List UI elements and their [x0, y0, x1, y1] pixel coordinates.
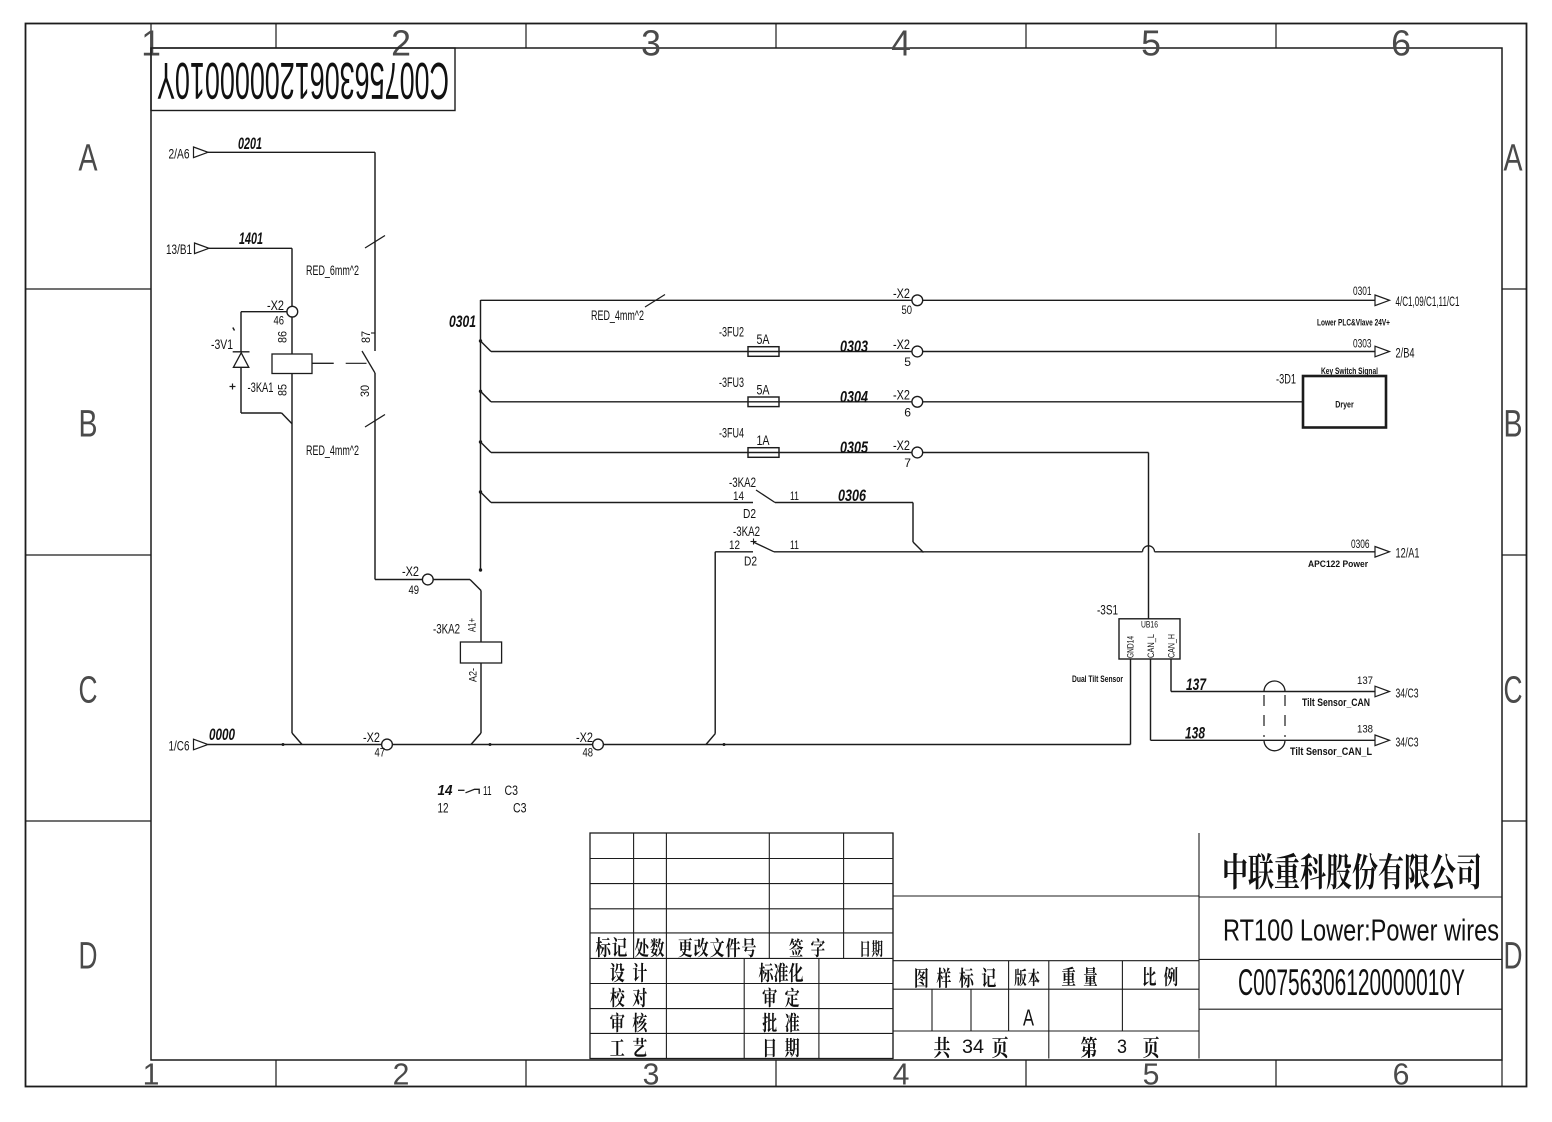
terminal -X2:7	[912, 447, 923, 458]
terminal -X2:48	[593, 739, 604, 750]
svg-text:1: 1	[143, 1059, 160, 1092]
relay coil -3KA1	[272, 354, 312, 374]
wire contact 30 down to -X2:49 line	[375, 579, 470, 581]
coil -3KA1 link stub	[312, 362, 334, 364]
wire 0304 to Dryer	[922, 401, 1303, 403]
svg-text:137: 137	[1186, 675, 1207, 694]
svg-text:0303: 0303	[840, 337, 868, 356]
terminal -X2:46	[287, 306, 298, 317]
title block	[590, 833, 893, 1059]
terminal -X2:47	[382, 739, 393, 750]
svg-text:11: 11	[790, 538, 799, 552]
svg-text:C3: C3	[505, 782, 519, 798]
svg-text:6: 6	[1393, 1059, 1410, 1092]
svg-text:C: C	[1504, 669, 1523, 712]
terminal -X2:50	[912, 295, 923, 306]
wire 0305 to terminal	[779, 452, 913, 454]
wire 0303 to output arrow	[922, 351, 1375, 353]
svg-text:1401: 1401	[239, 230, 263, 248]
mechanical link dashes to -3KA1	[312, 362, 334, 364]
svg-text:5A: 5A	[757, 331, 771, 347]
svg-text:12/A1: 12/A1	[1396, 546, 1420, 561]
svg-text:D: D	[1504, 935, 1523, 978]
svg-text:3: 3	[643, 1059, 660, 1092]
svg-text:C00756306120000010Y: C00756306120000010Y	[1238, 962, 1465, 1003]
svg-text:-X2: -X2	[576, 730, 593, 745]
svg-text:-3S1: -3S1	[1097, 603, 1118, 618]
svg-text:137: 137	[1357, 675, 1373, 687]
svg-text:0304: 0304	[840, 387, 868, 406]
svg-text:0305: 0305	[840, 438, 868, 457]
svg-text:138: 138	[1185, 724, 1205, 743]
svg-text:48: 48	[583, 746, 594, 760]
wire gauge slash RED_4mm^2 (left)	[365, 415, 385, 428]
svg-text:14: 14	[733, 489, 744, 503]
svg-text:0306: 0306	[1351, 537, 1370, 551]
svg-text:CAN_H: CAN_H	[1167, 634, 1177, 658]
bus 0000 horizontal	[208, 744, 1131, 746]
svg-text:2/B4: 2/B4	[1396, 346, 1415, 361]
svg-text:50: 50	[902, 303, 913, 317]
svg-text:3: 3	[1117, 1037, 1127, 1058]
svg-text:-3KA2: -3KA2	[729, 475, 756, 490]
svg-text:14: 14	[438, 782, 454, 799]
svg-text:Dryer: Dryer	[1335, 400, 1354, 411]
relay contact -3KA2 12-11	[715, 551, 753, 553]
svg-text:RED_4mm^2: RED_4mm^2	[591, 308, 644, 323]
svg-text:49: 49	[409, 583, 420, 597]
branch from bus 0301 to -3FU4	[481, 442, 492, 453]
wire 0303 to terminal	[779, 351, 913, 353]
svg-text:B: B	[1504, 403, 1523, 446]
wire 0201 vertical down to contact	[374, 152, 376, 351]
svg-text:Tilt Sensor_CAN: Tilt Sensor_CAN	[1302, 697, 1370, 709]
svg-text:5A: 5A	[757, 381, 771, 397]
svg-text:-X2: -X2	[363, 730, 380, 745]
svg-text:A: A	[79, 137, 98, 180]
branch from bus 0301 to contact -3KA2 14-11	[481, 492, 492, 503]
svg-text:11: 11	[483, 783, 492, 798]
svg-text:0301: 0301	[1353, 284, 1372, 298]
wire to 0000 bus jog	[292, 733, 302, 745]
terminal -X2:49	[422, 574, 433, 585]
svg-text:UB16: UB16	[1141, 620, 1158, 630]
svg-text:C3: C3	[513, 799, 527, 815]
wire 0301 to output arrow	[922, 299, 1375, 301]
svg-text:-3D1: -3D1	[1276, 372, 1296, 387]
svg-text:D2: D2	[744, 554, 757, 569]
svg-text:-X2: -X2	[402, 564, 419, 579]
svg-text:6: 6	[1391, 24, 1411, 64]
wire gauge slash RED_6mm^2	[365, 236, 385, 249]
wire 0304 to terminal	[779, 401, 913, 403]
svg-text:-3V1: -3V1	[211, 337, 233, 352]
relay contact -3KA1 87-30	[371, 332, 376, 334]
wire jog to coil -3KA2	[470, 580, 481, 591]
wire branch to diode -3V1	[241, 311, 288, 313]
svg-text:APC122 Power: APC122 Power	[1308, 559, 1368, 570]
sensor pin CAN_H wire 137	[1170, 659, 1172, 692]
svg-text:-X2: -X2	[267, 298, 284, 313]
svg-text:7: 7	[904, 456, 911, 470]
svg-text:4: 4	[891, 24, 911, 64]
polarity tick	[233, 328, 235, 331]
wire 0301 top horizontal	[481, 299, 913, 301]
svg-text:-3KA2: -3KA2	[733, 524, 760, 539]
svg-text:34/C3: 34/C3	[1396, 686, 1419, 701]
svg-text:2: 2	[393, 1059, 410, 1092]
svg-text:11: 11	[790, 489, 799, 503]
wire from 0000 up to contact -3KA2 12-11	[706, 734, 715, 745]
svg-text:4: 4	[893, 1059, 910, 1092]
svg-text:2/A6: 2/A6	[169, 145, 190, 161]
svg-text:Tilt Sensor_CAN_L: Tilt Sensor_CAN_L	[1290, 746, 1372, 758]
svg-text:34: 34	[962, 1037, 984, 1058]
wire 0306 to output arrow with hop	[774, 551, 1143, 553]
wire 0306 jog down	[775, 502, 913, 504]
svg-text:D2: D2	[743, 506, 756, 521]
svg-text:-X2: -X2	[893, 387, 910, 402]
svg-text:1A: 1A	[757, 432, 771, 448]
svg-text:C: C	[79, 669, 98, 712]
wire diode anode down	[240, 367, 242, 413]
wire 0201 horizontal	[208, 151, 375, 153]
svg-text:1/C6: 1/C6	[169, 737, 190, 753]
wire -X2:46 down through coil -3KA1	[291, 316, 293, 354]
bus 0301 vertical	[480, 300, 482, 570]
svg-text:-3FU3: -3FU3	[719, 375, 744, 390]
wire 0305 right and down to sensor	[922, 452, 1149, 454]
svg-text:D: D	[79, 935, 98, 978]
svg-text:RED_4mm^2: RED_4mm^2	[306, 443, 359, 458]
svg-text:13/B1: 13/B1	[166, 241, 192, 257]
svg-text:30: 30	[358, 385, 372, 397]
svg-text:RED_6mm^2: RED_6mm^2	[306, 263, 359, 278]
svg-text:46: 46	[274, 314, 285, 328]
svg-text:0303: 0303	[1353, 337, 1372, 351]
svg-text:12: 12	[438, 800, 449, 815]
svg-text:B: B	[79, 403, 98, 446]
svg-text:-3FU4: -3FU4	[719, 426, 744, 441]
terminal -X2:5	[912, 346, 923, 357]
svg-text:0201: 0201	[238, 135, 262, 153]
svg-text:138: 138	[1357, 724, 1373, 736]
svg-text:-X2: -X2	[893, 337, 910, 352]
svg-text:4/C1,09/C1,11/C1: 4/C1,09/C1,11/C1	[1396, 294, 1460, 309]
svg-text:5: 5	[904, 355, 911, 369]
wire 0000 up to sensor GND	[1130, 659, 1132, 745]
wire coil -3KA2 to 0000 bus	[471, 733, 481, 745]
wire gauge slash RED_4mm^2 (bus)	[645, 295, 665, 308]
sensor pin CAN_L wire 138	[1150, 659, 1152, 740]
plus mark	[230, 386, 236, 388]
svg-text:-X2: -X2	[893, 286, 910, 301]
svg-text:6: 6	[904, 405, 911, 419]
svg-text:C00756306120000010Y: C00756306120000010Y	[157, 51, 449, 109]
terminal -X2:6	[912, 396, 923, 407]
svg-text:87: 87	[359, 331, 373, 343]
svg-text:12: 12	[729, 538, 740, 552]
wire 1401 horizontal	[209, 247, 292, 249]
wire 0201 below contact to -X2:49 level	[374, 373, 376, 580]
svg-text:A1+: A1+	[467, 618, 479, 632]
svg-text:3: 3	[641, 24, 661, 64]
wire 1401 vertical	[291, 248, 293, 307]
branch from bus 0301 to -3FU3	[481, 391, 492, 402]
svg-text:-X2: -X2	[893, 438, 910, 453]
svg-text:CAN_L: CAN_L	[1146, 634, 1156, 658]
svg-text:0000: 0000	[209, 725, 235, 744]
twisted pair symbol	[1264, 681, 1285, 691]
svg-text:Dual Tilt Sensor: Dual Tilt Sensor	[1072, 674, 1123, 685]
svg-text:GND14: GND14	[1126, 636, 1136, 658]
svg-text:34/C3: 34/C3	[1396, 735, 1419, 750]
document number box (rotated)	[151, 48, 455, 111]
svg-text:47: 47	[375, 746, 386, 760]
svg-text:5: 5	[1141, 24, 1161, 64]
svg-text:A: A	[1023, 1005, 1034, 1031]
svg-text:85: 85	[276, 384, 290, 396]
svg-text:A2-: A2-	[468, 668, 480, 682]
svg-text:5: 5	[1143, 1059, 1160, 1092]
branch from bus 0301 to -3FU2	[481, 341, 492, 352]
svg-text:-3KA2: -3KA2	[433, 622, 460, 637]
svg-text:RT100 Lower:Power wires: RT100 Lower:Power wires	[1223, 913, 1499, 948]
svg-text:0301: 0301	[449, 312, 476, 331]
svg-text:-3KA1: -3KA1	[248, 380, 274, 395]
svg-text:Lower PLC&Vlave 24V+: Lower PLC&Vlave 24V+	[1317, 318, 1390, 329]
wire diode bottom to coil bottom net	[241, 412, 282, 414]
svg-text:86: 86	[276, 331, 290, 343]
svg-text:-3FU2: -3FU2	[719, 325, 744, 340]
svg-text:A: A	[1504, 137, 1523, 180]
